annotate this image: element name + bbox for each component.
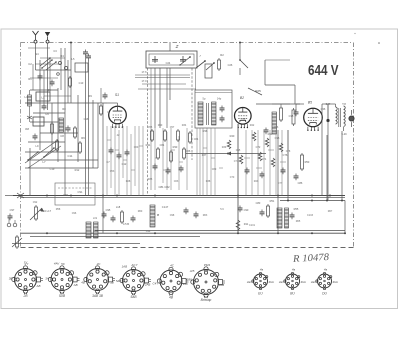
svg-text:C64: C64 — [194, 138, 199, 141]
svg-text:C90: C90 — [244, 208, 249, 212]
coil L1 — [36, 92, 50, 101]
wire h77 — [135, 77, 190, 79]
resistor R53 — [301, 153, 304, 171]
gang shield right2 — [195, 68, 197, 90]
svg-text:4B: 4B — [81, 280, 85, 284]
svg-text:C103: C103 — [307, 214, 314, 217]
OT primary — [336, 107, 338, 124]
svg-text:R63: R63 — [203, 214, 208, 217]
wire an2 — [47, 52, 49, 110]
IF1 box — [195, 90, 232, 128]
svg-text:C83: C83 — [256, 201, 261, 205]
IF2 wires — [272, 103, 290, 105]
res r9 — [100, 104, 103, 116]
res R11 — [236, 220, 240, 230]
svg-text:R61: R61 — [64, 193, 69, 197]
wire h96 — [44, 95, 71, 97]
wire v238 — [237, 124, 239, 233]
svg-text:C98: C98 — [170, 214, 175, 217]
wire h78 — [30, 77, 58, 79]
middle verticals B — [155, 128, 187, 190]
tube socket 4 labels — [116, 263, 151, 299]
right bottom parts — [260, 210, 265, 217]
svg-text:C2: C2 — [28, 62, 32, 66]
svg-text:R28: R28 — [126, 180, 131, 183]
svg-text:T.8: T.8 — [342, 102, 346, 106]
chassis frame bottom — [21, 247, 354, 249]
bottom mid caps — [184, 208, 189, 215]
IF1 coil b — [212, 102, 217, 125]
svg-text:R33: R33 — [173, 145, 178, 149]
wire h84 — [142, 83, 186, 85]
svg-text:C38: C38 — [289, 114, 294, 118]
tube socket 3 labels — [81, 262, 114, 298]
wire v101 — [100, 88, 102, 103]
wire v345 — [344, 201, 346, 234]
wire h48 — [28, 47, 50, 49]
OT wires — [335, 104, 337, 107]
wire v85 — [85, 56, 87, 196]
coil box top — [75, 63, 88, 72]
osc right block — [265, 60, 295, 104]
svg-text:AB: AB — [73, 283, 78, 287]
wire v197 — [196, 128, 198, 196]
avc dashed box — [55, 183, 95, 205]
wire v61 — [60, 48, 62, 90]
chassis frame left — [20, 43, 22, 248]
pot P2 — [12, 235, 22, 249]
wire v50 — [49, 58, 51, 92]
svg-text:R35: R35 — [148, 178, 153, 181]
choke L20 — [150, 205, 155, 227]
svg-text:4am: 4am — [311, 280, 317, 284]
svg-text:C70: C70 — [230, 176, 235, 179]
wire h152 — [25, 151, 78, 153]
tube socket 2 — [48, 266, 79, 294]
svg-text:R44: R44 — [268, 132, 273, 136]
svg-text:C58: C58 — [241, 117, 246, 121]
wire v44 — [43, 70, 45, 103]
wire h104 — [256, 103, 300, 105]
wire v155 up — [154, 68, 156, 128]
OT secondary — [344, 106, 346, 126]
svg-text:C16: C16 — [84, 117, 89, 121]
middle verticals C — [203, 128, 215, 196]
svg-text:C26: C26 — [228, 63, 233, 67]
svg-text:C35: C35 — [275, 136, 280, 140]
diagonal bundle — [25, 140, 61, 168]
svg-text:3M: 3M — [25, 127, 30, 131]
wire h75 — [135, 74, 190, 76]
svg-text:R43: R43 — [254, 180, 259, 183]
IF2 res b — [292, 108, 295, 126]
pilot socket 3 — [316, 272, 332, 289]
svg-text:5AB: 5AB — [130, 295, 137, 299]
IF1 core — [206, 103, 208, 125]
speck top right — [378, 42, 380, 44]
svg-text:C95: C95 — [106, 208, 111, 212]
gang shield right — [191, 68, 193, 160]
wire v93 — [92, 100, 94, 168]
left caps col — [83, 50, 88, 57]
pilot socket 2 labels — [279, 268, 307, 296]
bus2 junction dots — [46, 232, 48, 234]
R25 pointer — [248, 88, 262, 95]
svg-text:C8: C8 — [60, 134, 64, 138]
svg-text:R25: R25 — [255, 89, 261, 93]
coil L3 — [59, 118, 64, 132]
svg-text:R42: R42 — [250, 124, 255, 127]
tube socket 4 — [120, 267, 151, 295]
svg-text:C86: C86 — [298, 181, 303, 185]
handwritten R 10478 — [292, 252, 330, 265]
svg-text:DU: DU — [322, 292, 327, 296]
IF1 trimmers — [220, 106, 225, 113]
svg-text:4am: 4am — [247, 280, 253, 284]
mains parts — [8, 214, 13, 221]
svg-text:4a: 4a — [292, 268, 296, 272]
svg-text:R34: R34 — [182, 124, 187, 127]
wire v65 — [64, 48, 66, 196]
svg-text:C69: C69 — [212, 168, 217, 171]
chassis frame right — [353, 43, 355, 248]
svg-text:C11: C11 — [68, 154, 73, 158]
svg-text:S1: S1 — [115, 93, 119, 97]
wire h89 — [138, 88, 196, 90]
wire v68 — [67, 60, 69, 103]
tube B1 top wire — [117, 103, 119, 107]
svg-text:EU: EU — [258, 292, 263, 296]
svg-text:C53: C53 — [110, 170, 115, 173]
IF1 coil a — [198, 102, 203, 125]
cap C86 — [294, 174, 299, 181]
cap C36 — [326, 104, 329, 200]
tube B1 — [109, 106, 127, 128]
tube socket 5 — [157, 267, 188, 295]
wire v78 — [77, 95, 79, 162]
svg-text:4am: 4am — [279, 280, 285, 284]
IF2 res a — [280, 106, 283, 122]
svg-text:1B: 1B — [110, 280, 114, 284]
svg-text:C92: C92 — [33, 201, 38, 204]
svg-text:J25: J25 — [190, 269, 195, 273]
svg-text:L19: L19 — [93, 217, 98, 220]
svg-text:C76: C76 — [283, 153, 288, 157]
cap cluster mid-left — [153, 164, 184, 175]
resistor R1 — [51, 122, 54, 135]
resistor R3 — [74, 126, 77, 139]
agc line — [186, 153, 266, 155]
svg-text:C66: C66 — [186, 149, 191, 153]
svg-text:C36: C36 — [321, 107, 326, 111]
svg-text:R67: R67 — [328, 210, 333, 213]
svg-text:3AB 3B: 3AB 3B — [92, 294, 104, 298]
svg-text:L4C: L4C — [183, 282, 189, 286]
svg-text:R31: R31 — [146, 143, 151, 147]
capacitor C3 — [33, 134, 38, 141]
svg-text:R53: R53 — [305, 160, 310, 164]
svg-text:C60: C60 — [134, 146, 139, 149]
svg-text:C77: C77 — [278, 182, 283, 185]
svg-text:3AB: 3AB — [219, 283, 225, 287]
svg-text:C81 C82: C81 C82 — [158, 185, 169, 189]
cap C38 col — [294, 110, 299, 117]
svg-text:4bm: 4bm — [301, 280, 307, 284]
svg-text:R46: R46 — [274, 126, 279, 129]
wire v98 — [97, 103, 99, 168]
svg-text:R65: R65 — [296, 220, 301, 223]
capacitor C2 — [66, 126, 71, 133]
svg-text:4a: 4a — [260, 268, 264, 272]
tube socket 1 labels — [9, 261, 41, 299]
wire h90 — [30, 89, 58, 91]
wire v33 — [32, 64, 34, 90]
svg-text:14p: 14p — [217, 97, 222, 101]
svg-text:R8: R8 — [62, 107, 66, 111]
svg-text:4bm: 4bm — [269, 280, 275, 284]
wire h168 — [25, 167, 98, 169]
wire v71 — [70, 43, 72, 104]
svg-text:B2: B2 — [240, 96, 244, 100]
svg-text:Bmwap: Bmwap — [201, 298, 212, 302]
svg-text:R6: R6 — [81, 136, 85, 140]
tube B1 grid wire — [107, 111, 108, 113]
coil L4 left — [28, 95, 32, 106]
svg-text:C63: C63 — [174, 180, 179, 183]
svg-text:L4: L4 — [24, 95, 28, 99]
svg-text:R37: R37 — [202, 154, 207, 157]
svg-text:R38: R38 — [206, 180, 211, 183]
cap extra a — [38, 74, 43, 81]
wire v288 — [287, 130, 289, 201]
svg-text:R36: R36 — [203, 129, 208, 133]
wire h103 — [25, 102, 107, 104]
gang cap 2 — [180, 56, 186, 63]
svg-text:BU: BU — [290, 292, 295, 296]
middle verticals A — [107, 126, 143, 196]
wire v30 — [29, 148, 31, 196]
svg-text:17.6: 17.6 — [141, 70, 147, 74]
tube socket 6 labels — [186, 263, 224, 302]
svg-text:R55: R55 — [294, 207, 299, 211]
wire v278 — [277, 130, 279, 233]
svg-text:5.6: 5.6 — [220, 208, 224, 211]
osc switch c — [206, 62, 215, 70]
wire h58 — [40, 57, 65, 59]
avc small parts — [102, 212, 107, 219]
pilot socket 2 — [284, 272, 300, 289]
resistor cluster mid-right — [227, 132, 283, 167]
osc wire v170 — [169, 68, 171, 100]
switch S1a — [41, 59, 53, 69]
svg-text:C5: C5 — [47, 88, 51, 92]
osc res — [218, 58, 221, 71]
svg-text:R40: R40 — [230, 134, 235, 138]
svg-text:C71: C71 — [234, 160, 239, 163]
svg-text:R1: R1 — [28, 77, 32, 81]
OT core — [338, 108, 340, 127]
svg-text:5AB: 5AB — [116, 279, 122, 283]
svg-text:3A: 3A — [45, 277, 49, 281]
ground bus — [13, 195, 345, 197]
svg-text:C55: C55 — [148, 126, 153, 129]
svg-text:AB: AB — [36, 284, 41, 288]
cap extra b — [50, 80, 55, 87]
tube socket 5 labels — [153, 264, 190, 300]
lower bus 1 — [95, 230, 345, 232]
svg-text:C91: C91 — [78, 190, 83, 194]
wire top z — [169, 43, 171, 52]
tube socket 6 — [191, 267, 225, 298]
svg-text:C3: C3 — [53, 49, 57, 53]
svg-text:5DB: 5DB — [59, 294, 66, 298]
speaker — [349, 110, 354, 127]
wire h113 — [33, 112, 65, 114]
svg-text:R51: R51 — [270, 199, 275, 203]
capacitor C1 — [42, 104, 47, 111]
wire h142 — [28, 141, 65, 143]
wire h160 — [30, 159, 98, 161]
wire b5 left — [296, 103, 304, 105]
svg-text:L7: L7 — [42, 160, 46, 164]
gang shield left — [147, 68, 149, 196]
cap cluster mid-right — [245, 168, 286, 179]
earth E — [45, 32, 50, 52]
svg-text:R12: R12 — [75, 168, 80, 172]
gang cap 1 — [152, 56, 158, 63]
svg-text:R58: R58 — [56, 208, 61, 211]
switch S1b — [43, 147, 55, 158]
lower bus 2 — [21, 232, 346, 234]
IF2 coil — [272, 112, 277, 134]
mains wires — [5, 195, 13, 197]
svg-text:C72: C72 — [256, 145, 261, 149]
trans T2 — [86, 222, 91, 238]
tube socket 2 labels — [45, 261, 77, 298]
osc switch b — [196, 60, 206, 68]
pot P1 — [30, 205, 44, 221]
svg-text:C57: C57 — [170, 126, 175, 129]
tube V1 pin caps — [109, 148, 114, 155]
trimmer circles — [58, 61, 61, 64]
pilot socket 3 labels — [311, 268, 339, 296]
right bottom trans — [277, 208, 282, 228]
tube B5 — [304, 108, 323, 131]
svg-text:C7: C7 — [106, 160, 110, 164]
resistor R4 — [79, 141, 82, 154]
pilot socket 1 — [252, 272, 268, 289]
gang box outer — [146, 51, 197, 68]
svg-text:B: B — [157, 213, 159, 217]
svg-text:C96: C96 — [72, 212, 77, 215]
wire h70 — [36, 69, 72, 71]
svg-text:644 V: 644 V — [308, 63, 339, 79]
svg-text:17.0: 17.0 — [141, 79, 147, 83]
svg-text:C13: C13 — [79, 81, 84, 85]
IF1 box top2 — [195, 92, 232, 94]
svg-text:4.5 B: 4.5 B — [123, 222, 129, 226]
osc wire v160 — [159, 68, 161, 128]
wire v342 — [341, 131, 343, 201]
svg-text:C98: C98 — [186, 278, 192, 282]
svg-text:S4: S4 — [35, 52, 39, 56]
power bus — [280, 200, 345, 202]
resistor R2 — [56, 139, 59, 152]
wire v58 — [57, 88, 59, 162]
svg-text:C78: C78 — [286, 150, 291, 153]
svg-text:C101: C101 — [249, 224, 256, 227]
svg-text:R9: R9 — [88, 94, 92, 98]
svg-text:C61: C61 — [160, 143, 165, 147]
osc coil — [205, 64, 212, 78]
svg-text:R 10478: R 10478 — [292, 252, 330, 265]
wire v88 — [88, 60, 90, 196]
svg-text:4a: 4a — [324, 268, 328, 272]
svg-text:PM4: PM4 — [204, 263, 211, 267]
resistor cluster mid-left — [151, 129, 192, 163]
svg-text:1AB: 1AB — [122, 264, 128, 268]
svg-text:C74: C74 — [262, 158, 267, 161]
wire an1 — [35, 50, 37, 70]
wire h64 — [35, 63, 61, 65]
svg-text:C94 L17: C94 L17 — [41, 209, 52, 213]
svg-text:2C: 2C — [96, 262, 102, 266]
wire h133 — [40, 132, 78, 134]
svg-text:2AB: 2AB — [144, 283, 151, 287]
res extra a — [69, 76, 72, 88]
wire v240top — [239, 43, 241, 61]
cap C90 — [238, 206, 243, 213]
svg-text:C147: C147 — [162, 205, 169, 209]
gang box inner — [149, 54, 194, 65]
wire v327b — [326, 135, 328, 201]
svg-text:4bm: 4bm — [333, 280, 339, 284]
wire h122 — [30, 121, 58, 123]
svg-text:L18: L18 — [116, 205, 121, 209]
bus junction dots — [20, 195, 22, 197]
middle ties — [107, 140, 286, 170]
svg-text:C19: C19 — [50, 167, 55, 171]
svg-text:R60: R60 — [138, 210, 143, 213]
tube socket 3 — [84, 266, 115, 294]
svg-text:C24: C24 — [166, 61, 171, 65]
wire v52 — [51, 103, 53, 152]
tube socket 1 — [12, 266, 43, 294]
labels mid extra — [110, 124, 291, 185]
switch S2 — [239, 59, 248, 75]
coil L2 — [33, 117, 44, 126]
tube B2 — [235, 108, 252, 129]
svg-text:Z: Z — [175, 44, 179, 49]
ground bus 2 — [21, 197, 346, 199]
osc switch a — [179, 56, 191, 66]
svg-text:R30: R30 — [158, 124, 163, 127]
svg-text:B5: B5 — [308, 101, 312, 105]
cap top right — [103, 93, 108, 100]
gang shield left2 — [150, 68, 152, 190]
wire v167 up — [166, 68, 168, 128]
svg-text:R2: R2 — [220, 53, 224, 57]
antenna A — [33, 31, 39, 50]
lower bus 3 — [30, 236, 200, 238]
svg-text:ACY: ACY — [130, 263, 138, 267]
chassis frame top — [21, 42, 354, 44]
svg-text:C12: C12 — [122, 162, 127, 166]
middle verticals D — [246, 130, 288, 196]
wire v40 — [39, 60, 41, 150]
switch S1c — [27, 151, 39, 161]
frame tap arrows — [17, 193, 24, 198]
